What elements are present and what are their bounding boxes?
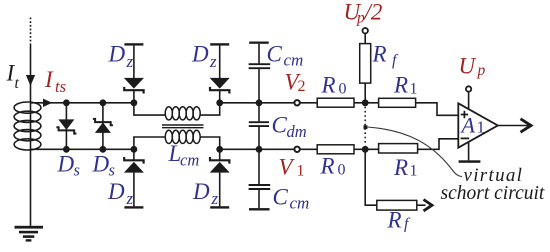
svg-text:ts: ts [55,77,66,96]
svg-text:D: D [192,179,210,204]
svg-text:cm: cm [290,194,310,213]
svg-text:z: z [126,52,134,71]
svg-text:D: D [191,41,209,66]
svg-text:R: R [372,42,387,67]
svg-text:s: s [74,161,80,180]
svg-text:R: R [393,155,408,180]
svg-text:1: 1 [297,163,305,180]
svg-text:C: C [272,112,288,137]
svg-text:V: V [279,154,296,179]
svg-text:D: D [107,179,125,204]
svg-text:U: U [459,54,477,79]
svg-text:cm: cm [180,150,199,169]
svg-text:0: 0 [339,81,347,98]
svg-text:R: R [393,73,408,98]
svg-text:s: s [109,161,115,180]
svg-text:C: C [273,184,289,209]
svg-text:f: f [392,52,399,69]
svg-text:R: R [320,154,335,179]
svg-text:I: I [44,67,54,92]
svg-text:D: D [92,151,110,176]
svg-text:C: C [267,42,283,67]
svg-text:cm: cm [284,50,304,69]
svg-text:D: D [108,41,126,66]
svg-text:z: z [211,189,219,208]
svg-text:/2: /2 [363,0,383,24]
svg-text:t: t [15,75,20,92]
svg-text:A: A [460,113,476,138]
svg-text:D: D [57,151,75,176]
svg-text:z: z [209,52,217,71]
svg-text:2: 2 [298,78,306,95]
svg-text:dm: dm [287,122,307,141]
svg-text:1: 1 [410,80,418,97]
svg-text:0: 0 [338,162,346,179]
svg-text:R: R [321,73,336,98]
svg-text:schort circuit: schort circuit [441,183,545,204]
svg-text:1: 1 [477,118,486,137]
svg-text:R: R [387,207,402,232]
svg-text:p: p [477,62,486,79]
svg-text:1: 1 [410,163,418,180]
svg-text:f: f [404,215,411,232]
svg-text:z: z [126,189,134,208]
